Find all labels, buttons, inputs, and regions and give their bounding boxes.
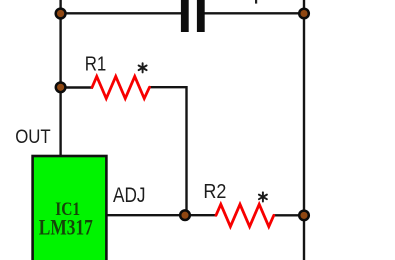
svg-text:OUT: OUT <box>15 127 51 148</box>
svg-text:R1: R1 <box>85 53 107 76</box>
svg-text:LM317: LM317 <box>39 215 93 239</box>
svg-text:ADJ: ADJ <box>113 184 146 207</box>
svg-text:R2: R2 <box>203 181 226 203</box>
